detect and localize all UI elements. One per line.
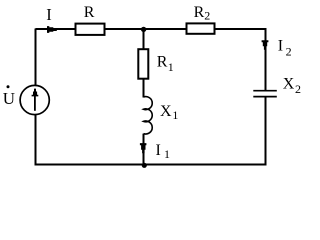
node junction dot bottom bbox=[142, 163, 147, 168]
svg-text:X: X bbox=[160, 103, 172, 120]
wire coil to bottom bbox=[143, 134, 145, 165]
wire R to node bbox=[104, 28, 186, 30]
source arrow bbox=[34, 95, 36, 111]
svg-text:2: 2 bbox=[204, 9, 210, 23]
svg-text:1: 1 bbox=[172, 108, 178, 122]
current arrow I1 bbox=[140, 143, 147, 153]
middle branch wire upper bbox=[143, 30, 145, 50]
svg-text:1: 1 bbox=[168, 60, 174, 74]
bottom wire bbox=[35, 164, 267, 166]
svg-text:U: U bbox=[3, 89, 15, 108]
svg-text:I: I bbox=[156, 142, 161, 159]
source U circle bbox=[20, 85, 49, 114]
inductor X1 coil bbox=[144, 97, 153, 134]
current arrow I bbox=[47, 26, 57, 33]
svg-text:2: 2 bbox=[286, 45, 292, 59]
svg-text:R: R bbox=[84, 4, 95, 21]
wire right branch lower bbox=[265, 97, 267, 166]
capacitor X2 bbox=[253, 90, 276, 92]
svg-text:2: 2 bbox=[295, 82, 301, 96]
resistor R2 bbox=[187, 23, 215, 33]
svg-text:1: 1 bbox=[164, 147, 170, 161]
left wire upper bbox=[35, 29, 37, 86]
left wire lower bbox=[35, 114, 37, 165]
svg-text:R: R bbox=[157, 54, 168, 71]
wire R2 to top-right corner bbox=[214, 28, 267, 30]
svg-text:I: I bbox=[278, 37, 283, 54]
svg-text:R: R bbox=[194, 4, 205, 21]
svg-text:X: X bbox=[283, 76, 295, 93]
svg-text:I: I bbox=[46, 5, 52, 24]
current arrow I2 bbox=[262, 40, 269, 50]
node junction dot top bbox=[141, 27, 146, 32]
resistor R bbox=[76, 24, 105, 35]
resistor R1 bbox=[138, 49, 148, 78]
wire right branch upper bbox=[265, 28, 267, 90]
wire R1 to coil bbox=[143, 79, 145, 98]
wire top-left segment bbox=[36, 28, 76, 30]
